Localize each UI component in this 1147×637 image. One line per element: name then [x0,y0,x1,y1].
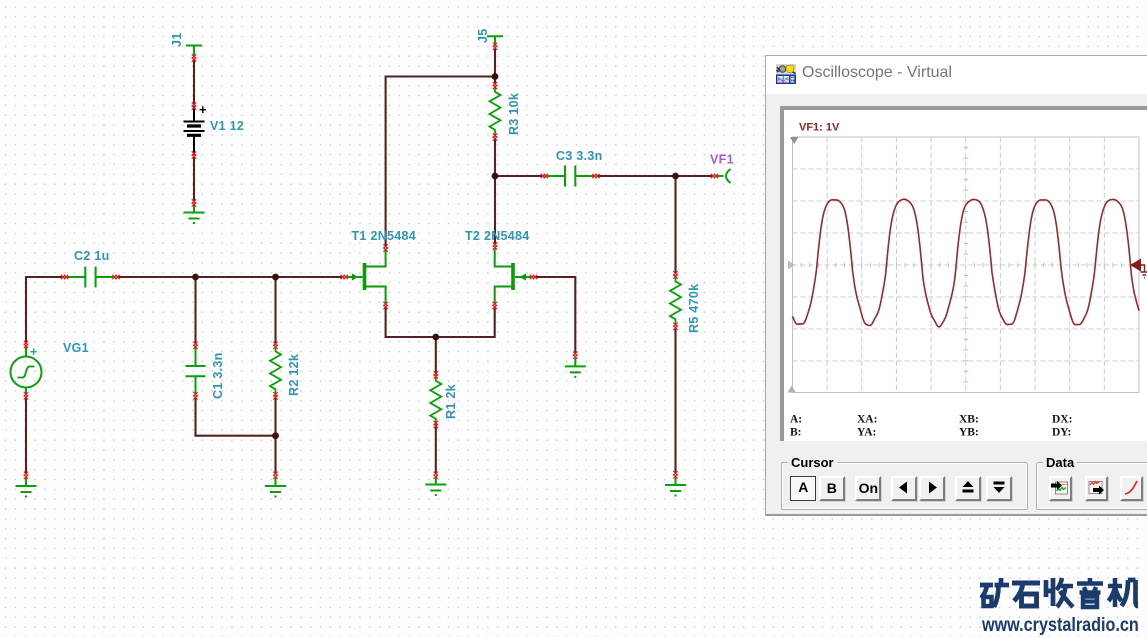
wire node to R2 top [274,277,276,344]
pin J5 [493,43,497,50]
marker top [790,137,799,144]
pin R5 top [673,271,677,278]
pin C2 right [112,275,119,279]
transistor T1 [347,249,386,305]
pin ground V1 [192,199,196,206]
wire node to R1 [435,337,437,374]
wire node to R3 [494,77,496,85]
svg-text:R5 470k: R5 470k [687,284,701,333]
wire node to R5 [674,176,676,274]
wire node to C3 [495,175,544,177]
svg-text:B:: B: [790,427,802,439]
wire node to VF1 terminal [676,175,714,177]
battery V1 [184,106,205,155]
wire C3 to VF1 node [597,175,676,177]
wire J5 to node [494,48,496,77]
svg-text:R3 10k: R3 10k [507,93,521,135]
node VF1 R5 [672,173,679,180]
pin J1 [192,54,196,61]
pin C1 bottom [193,392,197,399]
axis ticks [801,263,1130,268]
wire node to C1 top [194,277,196,344]
pin VG1 minus [24,392,28,399]
svg-text:C2 1u: C2 1u [74,249,110,263]
watermark char ji [1108,578,1138,607]
svg-text:T2 2N5484: T2 2N5484 [465,229,530,243]
voltage source VG1 [11,346,42,395]
pin T2 source [493,302,497,309]
node C1 top [192,274,199,281]
pin C3 left [541,174,548,178]
svg-text:YB:: YB: [959,427,979,439]
oscilloscope window [765,55,1147,516]
waveform VF1 [793,199,1140,327]
pin R2 top [273,342,277,349]
svg-text:XB:: XB: [959,414,979,426]
node C1 R2 bottom [272,432,279,439]
terminal J5 [487,36,503,46]
pin T1 source [383,302,387,309]
marker middle [788,261,795,270]
svg-text:C1 3.3n: C1 3.3n [211,352,225,399]
wire C1 bottom to node [196,397,276,436]
pin ground T2 gate [573,352,577,359]
wire battery bottom [193,157,195,202]
watermark char kuang [980,578,1009,607]
wire R5 to ground [674,328,676,473]
capacitor C1 [186,345,206,396]
capacitor C2 [65,267,116,288]
node source rail R1 [432,334,439,341]
pin V1 minus [192,151,196,158]
pin R3 top [493,82,497,89]
pin V1 plus [192,102,196,109]
readout labels [790,414,1072,439]
pin VG1 ground [24,472,28,479]
svg-text:V1 12: V1 12 [210,119,244,133]
wire T1 drain to top rail [386,77,495,247]
pin C1 top [193,342,197,349]
ground VG1 [16,478,37,497]
pin ground R2 [273,472,277,479]
ground T2 gate [565,358,586,377]
trigger marker [1130,259,1147,278]
resistor R2 [270,345,281,396]
node top rail R3 [492,73,499,80]
wire C2 to T1 gate [117,276,343,278]
ground battery [184,204,205,223]
pin VF1 [711,174,718,178]
svg-text:C3 3.3n: C3 3.3n [556,149,603,163]
watermark char shi [1012,583,1040,606]
svg-text:R2 12k: R2 12k [287,354,301,396]
terminal VF1 output [716,169,731,183]
pin VG1 plus [24,341,28,348]
wire source rail T1-T2 [386,307,495,337]
watermark [980,576,1145,610]
pin R1 bottom [434,421,438,428]
wire VG1 top to C2 [26,277,63,342]
pin C2 left [61,275,68,279]
terminal J1 [186,46,202,56]
pin T2 drain [493,242,497,249]
svg-text:T1 2N5484: T1 2N5484 [352,229,417,243]
wire R3 to T2 drain [494,139,496,245]
pin T1 gate [341,275,348,279]
marker bottom [788,386,797,393]
svg-text:R1 2k: R1 2k [444,384,458,419]
svg-text:DX:: DX: [1052,414,1072,426]
watermark char shou [1046,578,1073,607]
resistor R1 [430,375,441,426]
plot area [793,137,1140,393]
wire VG1 bottom to ground [25,397,27,473]
transistor T2 [495,249,531,305]
node R2 top [272,274,279,281]
resistor R5 [670,275,681,326]
svg-text:+: + [30,345,38,359]
wire battery top [193,60,195,105]
pin T2 gate [530,275,537,279]
watermark char yin [1077,578,1103,607]
grid dashed [827,137,1104,393]
svg-text:J1: J1 [170,32,184,47]
svg-text:A:: A: [790,414,802,426]
pin R5 bottom [673,323,677,330]
svg-text:DY:: DY: [1052,427,1071,439]
pin ground R5 [673,471,677,478]
node R3 bottom [492,173,499,180]
pin T1 drain [383,244,387,251]
ground R1 [425,476,446,495]
svg-text:+: + [199,102,207,117]
wire R2 bottom to ground [274,397,276,473]
ground R5 [665,477,686,496]
pin R1 top [434,371,438,378]
wire R1 to ground [435,426,437,473]
ground R2 C1 [265,478,286,497]
svg-text:XA:: XA: [857,414,877,426]
svg-text:VF1: VF1 [710,153,734,167]
pin R3 bottom [493,133,497,140]
wire T2 gate to ground [535,277,575,353]
svg-text:VF1: 1V: VF1: 1V [799,122,840,134]
pin ground R1 [434,472,438,479]
resistor R3 [490,86,501,137]
svg-text:VG1: VG1 [63,341,89,355]
pin C3 right [592,174,599,178]
svg-text:YA:: YA: [857,427,876,439]
svg-text:J5: J5 [476,28,490,43]
capacitor C3 [544,166,595,187]
pin R2 bottom [273,392,277,399]
